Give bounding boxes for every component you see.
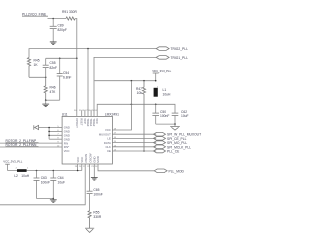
capacitor C55 — [43, 58, 57, 77]
port SPI_MCLK_PLL — [154, 145, 192, 149]
junction dot R47 top — [143, 80, 145, 82]
ground (C50/C62, bar-arrow style) — [170, 124, 180, 130]
junction dot L1 top — [155, 80, 157, 82]
top pin names — [75, 118, 99, 128]
junction dot VCC loop — [131, 104, 133, 106]
right pin wires — [112, 129, 156, 152]
left pin names — [64, 126, 70, 153]
svg-text:CE: CE — [107, 149, 111, 153]
ground (C63/C64) — [50, 199, 57, 203]
svg-text:6.8nF: 6.8nF — [63, 75, 71, 79]
port SPI_CE_PLL — [154, 137, 187, 141]
wire 3V3 rail — [95, 80, 156, 82]
capacitor C89 — [50, 19, 67, 42]
junction dot C54 top — [59, 58, 61, 60]
svg-text:LE: LE — [107, 137, 111, 141]
junction dot gnd bus 3 — [48, 135, 50, 137]
inductor L1 — [154, 86, 171, 96]
svg-text:FIN: FIN — [64, 141, 68, 145]
svg-text:47K: 47K — [50, 90, 57, 94]
resistor R91 — [62, 10, 77, 20]
svg-text:U11: U11 — [62, 113, 68, 117]
wire node N1 (CPOUT rail) — [46, 57, 77, 59]
wire rail B — [29, 76, 46, 78]
svg-text:TRIG2_PLL: TRIG2_PLL — [171, 47, 189, 51]
svg-text:VCC: VCC — [95, 118, 99, 124]
svg-text:MUXOUT: MUXOUT — [99, 132, 111, 136]
svg-text:TRIG1_PLL: TRIG1_PLL — [171, 56, 189, 60]
svg-text:DATA: DATA — [104, 141, 111, 145]
wire OSCIN net — [0, 164, 85, 205]
port SPI_MO_PLL — [154, 141, 188, 145]
wire OSCIN* to C65 — [89, 164, 91, 191]
right pin names — [99, 128, 111, 153]
wire caps ground rail — [156, 123, 175, 125]
svg-text:R91 330R: R91 330R — [62, 10, 77, 14]
svg-text:GND: GND — [64, 134, 70, 138]
resistor R46 — [44, 77, 56, 100]
svg-text:VCC: VCC — [64, 149, 70, 153]
svg-text:PLL_MOD: PLL_MOD — [169, 169, 185, 173]
net label PLL2VCO_FINE — [22, 12, 66, 18]
junction dot gnd rail — [174, 123, 176, 125]
top pin stubs and numbers — [74, 110, 98, 116]
junction dot R47 bottom on CE wire — [143, 150, 145, 152]
wire C54 bottom node — [46, 99, 60, 101]
port PLL_MOD — [154, 169, 184, 173]
bottom pin names — [76, 152, 100, 163]
svg-text:OSCIN: OSCIN — [84, 154, 88, 163]
port SPI_W_PLL_MUXOUT — [154, 132, 202, 136]
svg-text:GND: GND — [64, 126, 70, 130]
junction dot CPOUT — [76, 58, 78, 60]
svg-text:CPOUT: CPOUT — [75, 118, 79, 128]
wire TRIG1 net — [94, 57, 156, 116]
wire 3V3 to VCC bridge — [130, 81, 132, 105]
svg-text:L2: L2 — [14, 174, 18, 178]
junction dot rail A / TRIG2 pin — [87, 48, 89, 50]
svg-text:100nF: 100nF — [41, 180, 50, 184]
svg-text:GND: GND — [93, 156, 97, 162]
bottom pin stubs and numbers — [75, 166, 99, 168]
ground arrow (R55) — [85, 228, 94, 232]
capacitor C54 — [57, 58, 72, 100]
wire GND bus — [39, 128, 57, 140]
svg-text:820pF: 820pF — [58, 28, 67, 32]
ground (GND pin) — [91, 178, 98, 181]
svg-text:10uH: 10uH — [21, 174, 30, 178]
svg-text:PLL_CE: PLL_CE — [167, 150, 180, 154]
wire VCC top loop — [97, 104, 175, 116]
port TRIG1_PLL — [156, 56, 188, 60]
svg-text:82nF: 82nF — [50, 66, 58, 70]
svg-text:VCC: VCC — [80, 157, 84, 163]
power rail VDC_3V3_PLL — [152, 69, 171, 81]
svg-text:L1: L1 — [163, 88, 167, 92]
junction dot VCC1 — [77, 170, 79, 172]
svg-text:VCC: VCC — [76, 157, 80, 163]
junction dot C64 bottom — [53, 198, 55, 200]
capacitor C64 — [50, 171, 65, 199]
svg-text:C55: C55 — [50, 61, 56, 65]
port PLL_CE — [154, 149, 181, 153]
capacitor C50 — [152, 104, 169, 124]
resistor R47 — [136, 81, 146, 151]
wire TRIG2 pin vertical — [87, 49, 89, 117]
junction dot rail B — [45, 77, 47, 79]
svg-text:10uH: 10uH — [163, 93, 172, 97]
capacitor C62 — [172, 110, 189, 124]
power port VCC_3V3_PLL (left) — [3, 159, 22, 170]
wire VCC2 stub — [81, 164, 83, 171]
node VTUNE junction dot — [52, 18, 54, 20]
svg-text:10uF: 10uF — [181, 114, 189, 118]
ground (loop filter) — [42, 100, 49, 106]
svg-text:10uF: 10uF — [58, 180, 66, 184]
wire GND pin — [93, 164, 95, 178]
svg-text:PLL2VCO_FINE: PLL2VCO_FINE — [22, 12, 47, 16]
svg-text:330R: 330R — [93, 215, 102, 219]
capacitor C63 — [34, 171, 51, 199]
junction dot L1 bottom — [155, 104, 157, 106]
wire rail A (TRIG2 net) — [29, 49, 156, 58]
svg-text:MOD: MOD — [96, 156, 100, 162]
svg-text:OSCIN*: OSCIN* — [88, 152, 92, 163]
inductor L2 — [14, 168, 30, 178]
svg-text:FIN*: FIN* — [64, 145, 70, 149]
svg-text:VCC: VCC — [105, 128, 111, 132]
wire VCC1 stub — [77, 164, 79, 171]
ground (C89) — [50, 42, 57, 45]
wire MOD net — [98, 164, 154, 171]
svg-text:GND: GND — [64, 137, 70, 141]
net ROTOR_2_PLLFINN — [0, 143, 62, 147]
capacitor C65 — [87, 188, 103, 211]
svg-text:10k: 10k — [137, 91, 143, 95]
wire VCC bottom rail — [8, 170, 82, 172]
svg-text:CLK: CLK — [105, 145, 111, 149]
wire CPOUT pin vertical — [76, 58, 78, 116]
svg-text:100nF: 100nF — [93, 192, 102, 196]
svg-text:100nF: 100nF — [160, 114, 169, 118]
svg-text:LMX2491: LMX2491 — [105, 113, 119, 117]
left pin stubs — [49, 126, 62, 147]
svg-text:R46: R46 — [50, 86, 56, 90]
svg-text:R55: R55 — [93, 210, 99, 214]
junction dot C64 top — [53, 170, 55, 172]
svg-text:VDC_3V3_PLL: VDC_3V3_PLL — [152, 69, 171, 73]
svg-text:GND: GND — [64, 130, 70, 134]
net ROTOR_2_PLLFINP — [0, 139, 62, 143]
junction dot C63 top — [36, 170, 38, 172]
port TRIG2_PLL — [156, 47, 188, 51]
resistor R45 — [27, 58, 39, 78]
wire VCC right pin — [112, 104, 131, 130]
wire R91 to CPOUT node — [75, 19, 77, 59]
svg-text:VCC_3V3_PLL: VCC_3V3_PLL — [3, 159, 22, 163]
IC U11 LMX2491 — [62, 113, 119, 164]
svg-text:R45: R45 — [34, 59, 40, 63]
junction dot gnd bus 2 — [48, 131, 50, 133]
ground arrow (left, GND power port) — [34, 125, 39, 130]
resistor R55 — [88, 210, 102, 228]
junction dot gnd bus 1 — [48, 127, 50, 129]
wire C63/C64 gnd rail — [37, 198, 54, 200]
junction dot 3V3/VCC bridge top — [131, 80, 133, 82]
junction dot R46 bottom — [45, 99, 47, 101]
